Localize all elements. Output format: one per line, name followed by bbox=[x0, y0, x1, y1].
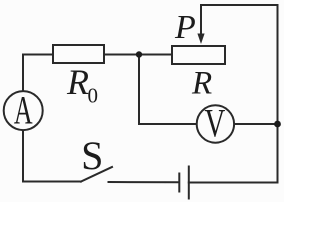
battery positive plate (long) bbox=[188, 167, 190, 199]
battery negative plate (short) bbox=[178, 174, 180, 192]
wiper arrow stem P bbox=[200, 5, 202, 35]
switch S blade bbox=[81, 167, 112, 182]
svg-text:V: V bbox=[204, 101, 225, 146]
wire R0 right to junction to potentiometer bbox=[104, 54, 172, 56]
ammeter A circle bbox=[4, 91, 43, 130]
voltmeter V circle bbox=[197, 105, 234, 142]
svg-text:R: R bbox=[66, 62, 89, 102]
label V bbox=[204, 101, 225, 146]
node junction dot right bbox=[274, 121, 281, 128]
svg-text:S: S bbox=[81, 133, 103, 178]
wire bottom left to switch pivot bbox=[23, 181, 81, 183]
label A bbox=[14, 89, 33, 133]
wire right rail vertical bbox=[277, 5, 279, 183]
wire top from wiper to right rail bbox=[201, 4, 278, 6]
svg-text:R: R bbox=[191, 66, 212, 102]
wire battery to bottom-right corner bbox=[189, 182, 278, 184]
wire switch contact to battery bbox=[109, 181, 179, 183]
wire top-left horizontal bbox=[23, 54, 52, 56]
node junction dot left bbox=[136, 51, 142, 57]
wire voltmeter left bbox=[139, 123, 196, 125]
svg-text:0: 0 bbox=[88, 84, 99, 108]
resistor R0 bbox=[53, 45, 104, 63]
wire junction down to voltmeter branch bbox=[138, 55, 140, 125]
wire left rail upper bbox=[22, 55, 24, 92]
svg-text:A: A bbox=[14, 89, 33, 133]
svg-text:P: P bbox=[174, 9, 196, 46]
wire voltmeter right to right rail bbox=[235, 123, 278, 125]
wiper arrowhead bbox=[197, 34, 204, 45]
potentiometer R body bbox=[172, 46, 225, 64]
wire left rail lower bbox=[22, 131, 24, 182]
